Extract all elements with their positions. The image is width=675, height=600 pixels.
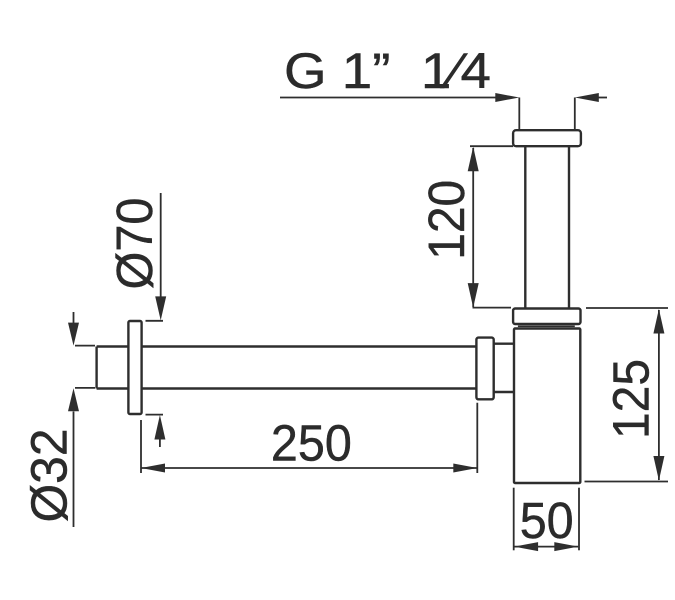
dimension 50 right arrow <box>554 542 578 551</box>
dimension G right arrow <box>575 93 599 102</box>
svg-text:125: 125 <box>603 359 660 439</box>
dimension 50 left extension line <box>513 488 515 551</box>
compression nut on inlet pipe <box>476 338 493 400</box>
dimension D70 bottom arrow (up) <box>154 415 165 440</box>
pipe stub between nut and body <box>494 344 515 392</box>
dimension G 1" 1/4 leader line <box>280 97 496 99</box>
trap body (bottle) <box>514 329 580 484</box>
svg-text:Ø70: Ø70 <box>106 198 163 290</box>
dimension G left arrow <box>495 93 519 102</box>
dimension 250 left extension line <box>140 420 142 473</box>
wall flange (rosette) <box>128 321 141 414</box>
dimension 250 line <box>141 467 477 469</box>
dimension 50 left arrow <box>514 542 538 551</box>
dimension G right arrow shaft <box>599 97 608 99</box>
dimension 125 bottom extension line <box>585 481 669 483</box>
dimension D32 pipe-top extension <box>75 345 95 347</box>
dimension 120 top extension line <box>470 145 513 147</box>
svg-text:120: 120 <box>418 180 475 260</box>
dimension 120 bottom extension line <box>473 307 512 309</box>
gasket line under upper ring <box>518 325 575 327</box>
dimension D70 bottom stub <box>159 438 161 447</box>
dimension D32 top stub <box>73 312 75 323</box>
dimension 125 line <box>658 310 660 480</box>
svg-text:Ø32: Ø32 <box>21 429 78 523</box>
dimension 50 right extension line <box>578 488 580 551</box>
dimension 50 line <box>514 546 578 548</box>
dimension D32 leader line <box>73 412 75 528</box>
dimension D32 pipe-bottom extension <box>75 387 95 389</box>
dimension G right extension line <box>574 98 576 131</box>
dimension D32 top arrow (down) <box>68 323 79 346</box>
horizontal pipe (inlet tube) <box>97 347 477 389</box>
vertical pipe (outlet riser) <box>525 146 569 308</box>
svg-text:50: 50 <box>520 492 574 549</box>
dimension 125 top extension line <box>586 307 668 309</box>
dimension 120 bottom arrow <box>468 283 479 308</box>
upper ring nut of body <box>513 309 580 325</box>
dimension D32 bottom arrow (up) <box>68 388 79 411</box>
dimension 125 bottom arrow <box>653 456 664 481</box>
svg-text:G 1” 1⁄4: G 1” 1⁄4 <box>284 43 491 99</box>
dimension D70 top arrow (down) <box>155 296 166 320</box>
dimension 125 top arrow <box>653 309 664 334</box>
dimension D70 leader line <box>160 193 162 297</box>
dimension D70 flange-bottom extension <box>146 414 164 416</box>
top cap nut <box>513 130 581 146</box>
dimension G left extension line <box>518 98 520 131</box>
dimension 250 right extension line <box>476 403 478 473</box>
dimension D70 flange-top extension <box>146 320 164 322</box>
dimension 250 left arrow <box>141 464 165 473</box>
dimension 120 line <box>472 148 474 307</box>
dimension 250 right arrow <box>453 464 477 473</box>
dimension 120 top arrow <box>468 147 479 172</box>
svg-text:250: 250 <box>271 415 352 472</box>
